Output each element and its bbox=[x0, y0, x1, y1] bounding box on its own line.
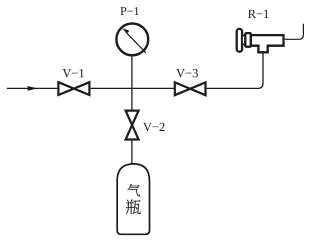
regulator R-1 neck bbox=[242, 35, 246, 44]
wire V-3 to regulator riser bbox=[206, 54, 264, 89]
wire regulator outlet bbox=[285, 24, 304, 40]
regulator R-1 body with outlet stub bbox=[251, 35, 284, 52]
gas cylinder bbox=[117, 164, 149, 234]
wire V-1 to V-3 bbox=[89, 87, 174, 89]
label V-2 bbox=[143, 123, 164, 131]
wire gauge to junction bbox=[131, 56, 133, 110]
regulator R-1 knob bbox=[237, 29, 242, 52]
wire inlet line bbox=[7, 87, 59, 89]
gauge needle bbox=[126, 32, 146, 52]
label R-1 bbox=[248, 10, 269, 18]
label 气 (gas) bbox=[128, 184, 141, 197]
regulator R-1 bonnet bbox=[245, 33, 251, 47]
valve V-3 bbox=[175, 82, 206, 95]
label V-1 bbox=[62, 69, 83, 77]
valve V-1 bbox=[58, 82, 89, 95]
label V-3 bbox=[176, 69, 198, 77]
label P-1 bbox=[120, 7, 138, 15]
label 瓶 (bottle) bbox=[126, 200, 141, 215]
valve V-2 bbox=[126, 111, 139, 140]
wire V-2 to cylinder bbox=[131, 140, 133, 165]
pressure gauge P-1 bbox=[116, 24, 148, 56]
inlet flow arrow bbox=[28, 86, 38, 91]
